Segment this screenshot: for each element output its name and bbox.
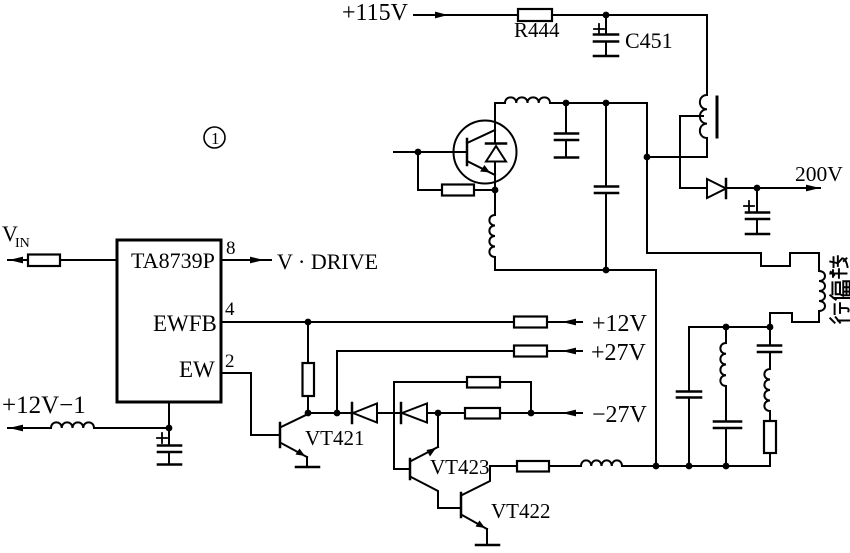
wire R444 to corner	[552, 14, 707, 16]
inductor deflection coil	[819, 271, 825, 311]
wire 200V output arrow	[757, 187, 820, 189]
arrow right on +115V wire	[435, 12, 448, 19]
wire +12V-1 input	[8, 427, 51, 429]
op-amp IC TA8739P box	[117, 240, 221, 402]
resistor +27V feed	[514, 346, 547, 357]
wire emitter bottom	[495, 257, 656, 270]
wire RLC top	[689, 326, 770, 328]
wire feedback loop	[394, 382, 531, 469]
resistor feedback loop	[467, 377, 500, 388]
transformer T primary winding	[700, 95, 707, 138]
resistor branch right	[764, 421, 776, 453]
ground VT422	[476, 544, 499, 547]
node junction	[166, 425, 173, 432]
transistor emitter	[467, 161, 495, 175]
wire -27V line left	[308, 412, 352, 414]
label 行偏转 vertical	[830, 256, 849, 322]
wire down right	[655, 270, 657, 466]
resistor output	[517, 461, 549, 472]
inductor +12V-1	[51, 422, 94, 428]
svg-text:8: 8	[226, 238, 236, 259]
wire step to deflection coil	[647, 253, 819, 271]
svg-text:EW: EW	[179, 357, 215, 382]
wire diode to node	[726, 187, 757, 189]
resistor -27V line	[465, 408, 500, 419]
node +12V-1 label	[2, 392, 86, 419]
diode VD rectifier 200V	[707, 179, 726, 198]
svg-text:EWFB: EWFB	[153, 311, 217, 336]
pin 2 EW wire	[221, 373, 279, 435]
resistor EWFB pulldown	[307, 322, 309, 363]
node junction VT421 collector	[305, 410, 312, 417]
capacitor branch middle	[714, 422, 741, 467]
capacitor decoupling	[157, 428, 181, 464]
transformer core	[716, 97, 719, 137]
wire between diodes	[377, 412, 401, 414]
node junction	[603, 267, 610, 274]
node junction	[767, 324, 774, 331]
svg-text:200V: 200V	[795, 162, 843, 186]
node junction	[528, 410, 535, 417]
capacitor 200V filter	[744, 188, 769, 233]
ground VT421	[296, 466, 319, 469]
ground decoupling cap	[158, 463, 181, 466]
node junction	[563, 100, 570, 107]
wire to diode	[680, 187, 707, 189]
transistor collector	[467, 130, 495, 143]
svg-text:IN: IN	[15, 236, 30, 251]
ground C1	[555, 156, 578, 159]
pin 8 V DRIVE	[221, 259, 271, 261]
wire right vertical	[646, 103, 648, 253]
transistor VT423	[410, 413, 459, 508]
node junction top	[603, 12, 610, 19]
svg-text:+12V−1: +12V−1	[2, 392, 86, 419]
pin 4 EWFB wire	[221, 321, 514, 323]
wire VIN input	[8, 259, 28, 261]
svg-text:−27V: −27V	[592, 402, 648, 428]
svg-text:+12V: +12V	[592, 311, 648, 337]
node circled 1	[204, 127, 225, 148]
transistor V (HOT with damper) circle	[454, 121, 517, 184]
node junction	[334, 410, 341, 417]
node junction	[644, 154, 651, 161]
wire transformer bottom	[706, 138, 708, 157]
svg-text:TA8739P: TA8739P	[131, 248, 215, 273]
wire +27V branch	[337, 351, 514, 413]
svg-text:1: 1	[211, 129, 220, 148]
node junction	[653, 463, 660, 470]
ground 200V cap	[746, 233, 769, 236]
resistor base-emitter	[418, 152, 442, 190]
inductor branch middle	[720, 327, 726, 421]
wire collector vertical	[494, 103, 496, 144]
node junction	[723, 324, 730, 331]
wire corner down to transformer	[706, 15, 708, 95]
transistor VT421	[280, 414, 308, 466]
capacitor C2	[595, 103, 618, 270]
node V IN label	[2, 221, 30, 251]
resistor VIN	[28, 255, 60, 267]
node junction	[686, 463, 693, 470]
transistor base bar	[466, 139, 469, 165]
wire bottom winding to junction	[647, 156, 707, 158]
node +115V label	[342, 0, 409, 26]
svg-text:R444: R444	[514, 18, 560, 42]
diode VD1	[352, 403, 377, 423]
svg-text:2: 2	[225, 351, 235, 372]
wire transformer tap	[680, 115, 703, 117]
wire base stub	[394, 151, 466, 153]
diode VD2	[401, 403, 427, 423]
inductor branch right	[764, 369, 770, 421]
wire tap down to diode	[679, 116, 681, 188]
resistor R444	[518, 9, 552, 21]
svg-text:V · DRIVE: V · DRIVE	[277, 249, 378, 274]
wire step from coil bottom	[770, 311, 819, 327]
svg-text:C451: C451	[625, 28, 673, 53]
node junction emitter	[492, 187, 499, 194]
node junction	[435, 410, 442, 417]
damper diode	[486, 146, 506, 162]
capacitor C1	[555, 103, 578, 157]
inductor emitter coil	[489, 215, 495, 257]
node junction	[603, 100, 610, 107]
node 200V junction	[754, 185, 761, 192]
transistor VT422	[461, 466, 490, 544]
wire +115V to R444	[414, 14, 518, 16]
capacitor series branch	[677, 327, 701, 466]
inductor L top	[495, 97, 647, 103]
node junction pin4	[305, 319, 312, 326]
wire IC bottom pin	[168, 402, 170, 428]
svg-text:+27V: +27V	[591, 340, 647, 366]
wire diode to resistor	[427, 412, 465, 414]
svg-text:VT422: VT422	[491, 499, 551, 523]
ground C451	[594, 55, 618, 58]
capacitor branch right	[758, 327, 781, 369]
wire VT422 collector out	[490, 465, 517, 467]
capacitor C451	[594, 15, 618, 55]
svg-text:VT421: VT421	[305, 426, 365, 450]
svg-text:VT423: VT423	[430, 455, 490, 479]
svg-text:4: 4	[225, 299, 235, 320]
resistor +12V feed	[514, 317, 547, 328]
wire bottom right	[622, 465, 770, 467]
damper diode cathode bar	[486, 142, 506, 145]
inductor output coil	[581, 460, 622, 466]
svg-text:+115V: +115V	[342, 0, 409, 26]
node junction	[723, 463, 730, 470]
node junction base	[415, 149, 422, 156]
